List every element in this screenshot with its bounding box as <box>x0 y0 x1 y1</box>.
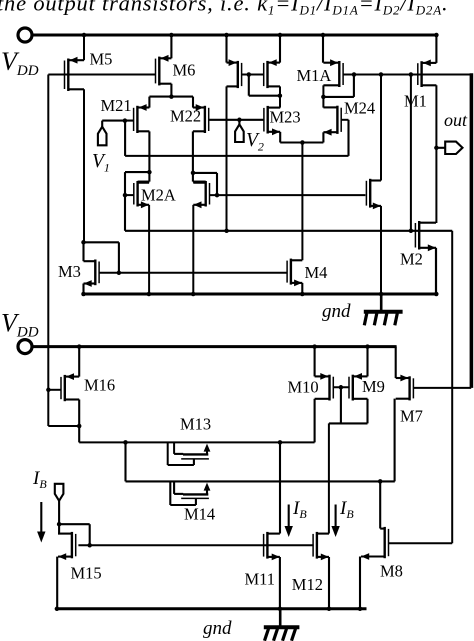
svg-text:M21: M21 <box>101 96 132 115</box>
svg-text:M12: M12 <box>292 575 323 594</box>
svg-text:M4: M4 <box>305 263 328 282</box>
svg-text:gnd: gnd <box>203 618 232 639</box>
svg-text:M13: M13 <box>180 415 211 434</box>
svg-text:the output transistors, i.e. k: the output transistors, i.e. k1=ID1/ID1A… <box>0 0 448 18</box>
svg-text:M3: M3 <box>58 262 81 281</box>
svg-text:M16: M16 <box>84 376 115 395</box>
svg-text:M1: M1 <box>404 92 427 111</box>
svg-text:M2: M2 <box>400 250 423 269</box>
svg-text:M7: M7 <box>400 407 423 426</box>
svg-text:M8: M8 <box>380 561 403 580</box>
svg-text:M24: M24 <box>344 99 375 118</box>
svg-text:M1A: M1A <box>297 66 332 85</box>
svg-text:M10: M10 <box>288 377 319 396</box>
svg-text:M22: M22 <box>170 107 201 126</box>
svg-text:M11: M11 <box>245 569 276 588</box>
svg-text:gnd: gnd <box>322 301 351 322</box>
svg-text:M6: M6 <box>173 61 196 80</box>
svg-text:M15: M15 <box>71 564 102 583</box>
svg-text:M9: M9 <box>362 377 385 396</box>
svg-text:M2A: M2A <box>141 186 176 205</box>
svg-text:M14: M14 <box>184 505 215 524</box>
svg-text:M23: M23 <box>270 108 301 127</box>
svg-text:out: out <box>444 110 468 130</box>
svg-text:M5: M5 <box>90 50 113 69</box>
